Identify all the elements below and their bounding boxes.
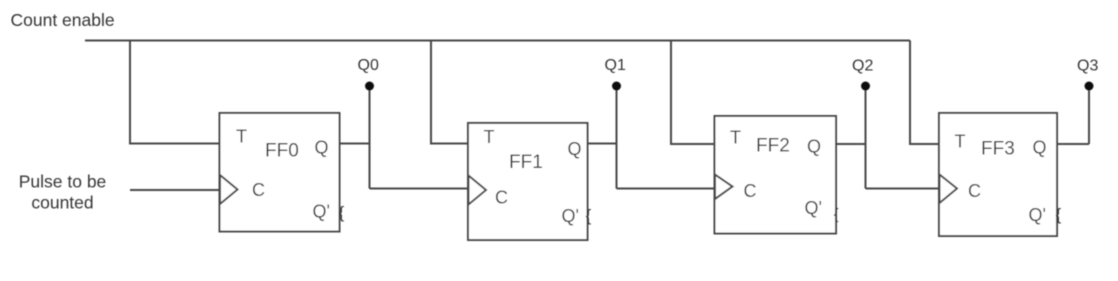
svg-text:Q': Q'	[805, 198, 822, 218]
wire: FF2 Q to node Q2	[836, 143, 866, 145]
node Q3 dot	[1085, 82, 1094, 91]
wire: FF1 Q to node Q1	[588, 143, 617, 145]
svg-text:Q: Q	[315, 138, 329, 158]
wire: count enable top rail	[85, 40, 910, 42]
svg-text:Q': Q'	[562, 206, 579, 226]
svg-text:Q2: Q2	[852, 58, 873, 75]
clock triangle FF1	[469, 176, 487, 205]
svg-text:T: T	[236, 127, 247, 147]
svg-text:{: {	[586, 206, 592, 225]
wire: Q1 to FF2 C	[617, 188, 715, 190]
svg-text:C: C	[968, 181, 981, 201]
flip-flop FF3	[939, 113, 1062, 236]
svg-text:FF0: FF0	[265, 141, 299, 162]
svg-text:Pulse to be: Pulse to be	[19, 172, 107, 192]
svg-text:Q': Q'	[313, 202, 330, 222]
wire: node Q3 vertical	[1088, 86, 1090, 144]
svg-text:Count enable: Count enable	[11, 10, 115, 30]
svg-text:Q3: Q3	[1077, 58, 1098, 75]
node Q1 dot	[612, 82, 621, 91]
wire: node Q2 vertical	[865, 86, 867, 189]
svg-text:Q0: Q0	[358, 57, 379, 74]
svg-text:C: C	[495, 188, 508, 208]
node Q2 dot	[861, 82, 870, 91]
svg-text:FF3: FF3	[981, 139, 1015, 160]
wire: FF0 Q to node Q0	[340, 143, 370, 145]
wire: FF3 Q to node Q3	[1057, 143, 1089, 145]
svg-text:Q': Q'	[1029, 205, 1046, 225]
svg-text:{: {	[1056, 205, 1062, 224]
clock triangle FF3	[940, 175, 958, 204]
wire: node Q1 vertical	[616, 86, 618, 189]
svg-text:Q: Q	[807, 137, 821, 157]
svg-text:Q1: Q1	[605, 57, 626, 74]
svg-text:FF2: FF2	[756, 136, 790, 157]
svg-text:Q: Q	[1033, 138, 1047, 158]
clock triangle FF0	[220, 175, 238, 204]
svg-text:C: C	[252, 180, 265, 200]
wire: Q0 to FF1 C	[370, 188, 469, 190]
svg-text:T: T	[484, 127, 495, 147]
svg-text:counted: counted	[31, 193, 93, 213]
wire: enable drop to FF3 T	[910, 41, 939, 145]
wire: enable drop to FF1 T	[431, 41, 468, 144]
wire: enable drop to FF2 T	[671, 41, 715, 145]
svg-text:{: {	[339, 203, 345, 222]
flip-flop FF2	[715, 116, 839, 234]
svg-text:T: T	[730, 128, 741, 148]
svg-text:{: {	[834, 206, 839, 223]
svg-text:T: T	[955, 132, 966, 152]
flip-flop FF0	[220, 113, 345, 232]
wire: node Q0 vertical	[369, 86, 371, 189]
svg-text:FF1: FF1	[509, 152, 543, 173]
flip-flop FF1	[468, 123, 592, 240]
wire: pulse input to FF0 C	[130, 189, 220, 191]
svg-text:C: C	[744, 181, 757, 201]
node Q0 dot	[365, 82, 374, 91]
svg-text:Q: Q	[568, 139, 582, 159]
wire: enable drop to FF0 T	[130, 41, 220, 144]
clock triangle FF2	[715, 175, 733, 200]
wire: Q2 to FF3 C	[866, 188, 940, 190]
